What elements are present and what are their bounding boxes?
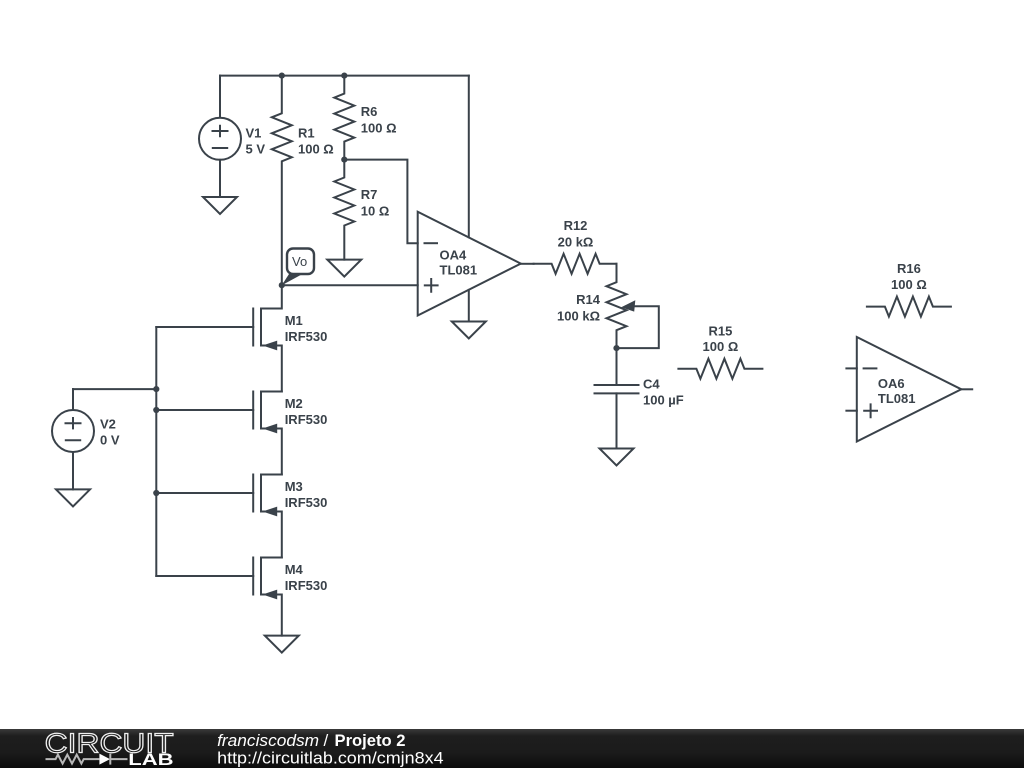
svg-text:100 Ω: 100 Ω (361, 120, 397, 135)
node dot bus-M2 (153, 407, 159, 413)
voltage source V2 (52, 389, 120, 489)
svg-text:M4: M4 (285, 562, 304, 577)
svg-text:100 Ω: 100 Ω (298, 141, 334, 156)
svg-text:0 V: 0 V (100, 433, 120, 448)
wire gate lead M4 (156, 575, 253, 577)
wire R12 to R14 (616, 263, 618, 265)
wire top rail from V1 to OA4 V+ pin (220, 75, 469, 77)
svg-text:10 Ω: 10 Ω (361, 204, 390, 219)
svg-text:R16: R16 (897, 261, 921, 276)
svg-text:http://circuitlab.com/cmjn8x4: http://circuitlab.com/cmjn8x4 (217, 749, 443, 768)
wire from node Vo to OA4 non-inverting input (282, 284, 418, 286)
resistor R6 (334, 76, 396, 160)
svg-text:M2: M2 (285, 396, 303, 411)
node dot bus-M3 (153, 490, 159, 496)
svg-text:R1: R1 (298, 125, 315, 140)
resistor R15 (678, 323, 762, 378)
resistor R12 (534, 218, 617, 274)
ground below R7 (327, 260, 361, 277)
ground below OA4 (452, 322, 486, 339)
svg-text:LAB: LAB (128, 751, 173, 768)
svg-text:R15: R15 (708, 323, 732, 338)
svg-text:V1: V1 (246, 125, 262, 140)
svg-text:R14: R14 (576, 292, 601, 307)
resistor R16 (867, 261, 951, 316)
wire gate lead M1 (156, 326, 253, 328)
node dot V2-bus (153, 386, 159, 392)
svg-text:IRF530: IRF530 (285, 329, 328, 344)
svg-text:OA6: OA6 (878, 376, 905, 391)
gate bus wire (155, 327, 157, 576)
ground below V2 (56, 489, 90, 506)
node dot rail-R6 (341, 73, 347, 79)
node dot R14 wiper junction (613, 345, 619, 351)
node dot rail-R1 (279, 73, 285, 79)
svg-text:M1: M1 (285, 313, 303, 328)
ground below C4 (600, 449, 634, 466)
transistor M1 IRF530 (253, 285, 327, 391)
transistor M4 IRF530 (253, 558, 327, 636)
node Vo flag (282, 249, 314, 286)
CircuitLab logo resistor-diode squiggle (46, 754, 128, 765)
svg-text:TL081: TL081 (878, 391, 916, 406)
wire V2 to gate bus (73, 388, 156, 390)
svg-text:M3: M3 (285, 479, 303, 494)
svg-text:20 kΩ: 20 kΩ (558, 234, 594, 249)
svg-text:franciscodsm: franciscodsm (217, 731, 319, 750)
svg-text:5 V: 5 V (246, 141, 266, 156)
voltage source V1 (199, 76, 265, 197)
wire from R6/R7 node to OA4 inverting input (344, 160, 417, 244)
svg-text:IRF530: IRF530 (285, 495, 328, 510)
svg-text:V2: V2 (100, 417, 116, 432)
wire gate lead M2 (156, 409, 253, 411)
svg-text:R12: R12 (564, 218, 588, 233)
svg-text:100 kΩ: 100 kΩ (557, 308, 600, 323)
svg-text:C4: C4 (643, 376, 660, 391)
op-amp OA6 TL081 (846, 337, 972, 442)
transistor M2 IRF530 (253, 392, 327, 475)
svg-text:Vo: Vo (292, 254, 307, 269)
capacitor C4 (595, 348, 684, 448)
wire gate lead M3 (156, 492, 253, 494)
resistor R7 (334, 160, 389, 260)
wire OA4 output (521, 263, 534, 265)
svg-text:OA4: OA4 (440, 248, 468, 263)
OA4 positive supply pin wire to top rail (468, 76, 470, 238)
svg-text:IRF530: IRF530 (285, 578, 328, 593)
potentiometer R14 (557, 264, 659, 348)
resistor R1 (272, 76, 334, 286)
svg-text:IRF530: IRF530 (285, 412, 328, 427)
svg-text:R6: R6 (361, 104, 378, 119)
ground below V1 (203, 197, 237, 214)
svg-text:/: / (324, 731, 329, 750)
svg-text:Projeto 2: Projeto 2 (335, 731, 406, 750)
ground below M4 (265, 636, 299, 653)
node dot R6-R7 (341, 157, 347, 163)
transistor M3 IRF530 (253, 475, 327, 558)
svg-text:100 Ω: 100 Ω (891, 277, 927, 292)
svg-text:R7: R7 (361, 187, 378, 202)
svg-text:TL081: TL081 (440, 263, 478, 278)
svg-text:100 Ω: 100 Ω (703, 339, 739, 354)
op-amp OA4 TL081 (418, 212, 521, 316)
node dot Vo (279, 282, 285, 288)
OA4 negative supply pin wire (468, 290, 470, 322)
svg-text:100 µF: 100 µF (643, 393, 684, 408)
